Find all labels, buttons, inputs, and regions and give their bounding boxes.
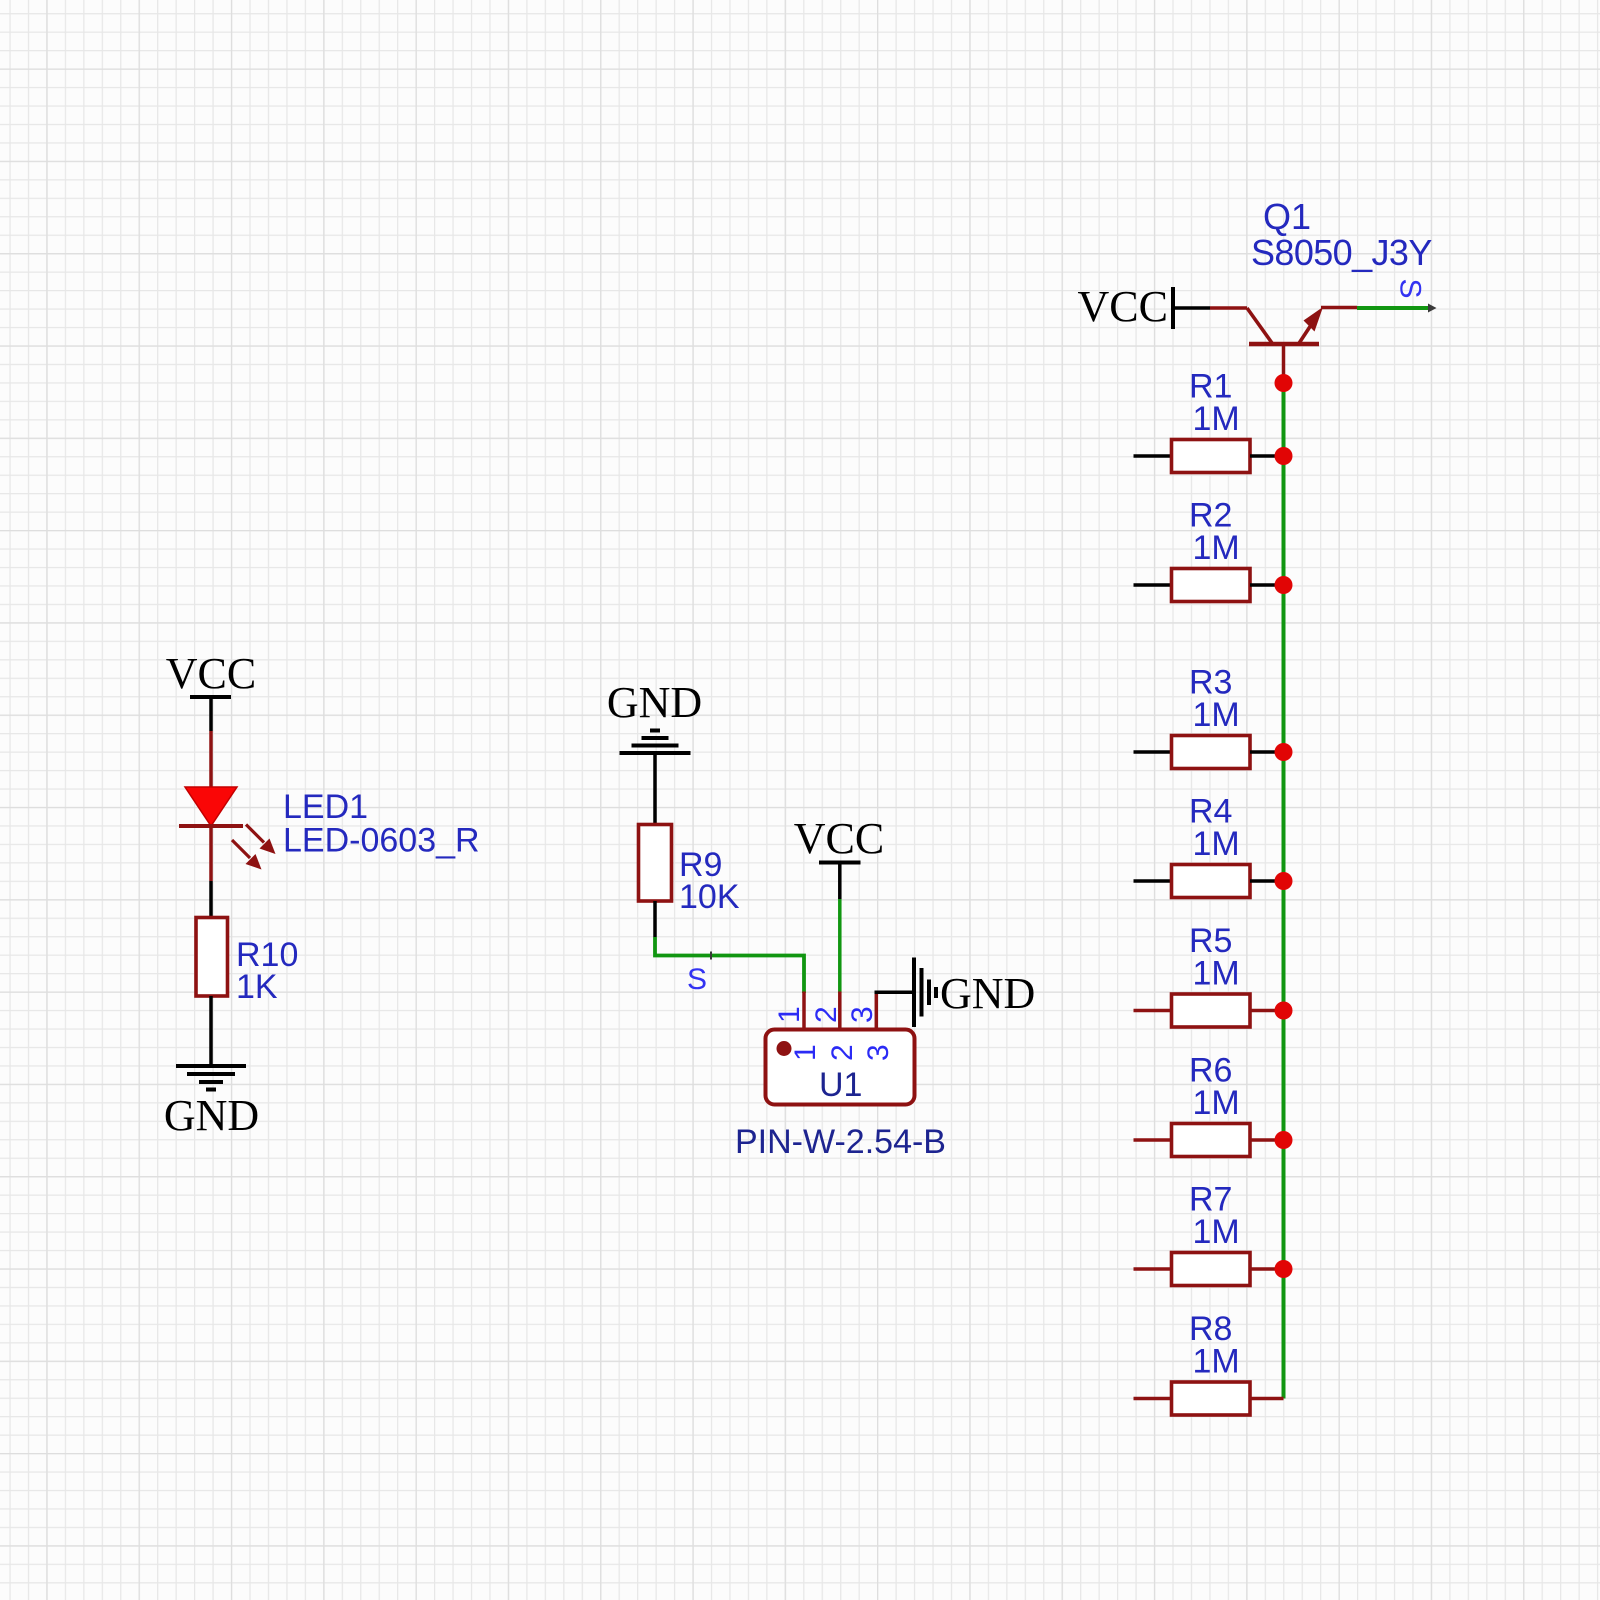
svg-text:1M: 1M [1193, 400, 1240, 438]
svg-text:2: 2 [810, 1006, 843, 1023]
VCC power bar (middle) [819, 861, 861, 865]
resistor R3 right lead [1250, 750, 1284, 754]
wire VCC down (black) [838, 863, 842, 900]
pin-1 marker dot of U1 [777, 1041, 792, 1056]
ground GND (right of U1, rotated) [914, 958, 936, 1028]
wire VCC to Q1 (black) [1173, 306, 1210, 310]
LED LED1 cathode pin [209, 826, 213, 881]
wire S (green, right) [1357, 306, 1431, 310]
VCC power bar (right) [1171, 287, 1175, 329]
svg-text:VCC: VCC [794, 814, 884, 863]
svg-text:1M: 1M [1193, 696, 1240, 734]
wire R9 down [653, 901, 657, 937]
svg-text:1: 1 [789, 1044, 822, 1061]
wire Q1 base down [1282, 344, 1286, 383]
svg-text:VCC: VCC [1078, 282, 1168, 331]
wire LED1 to R10 [209, 881, 213, 918]
svg-text:1M: 1M [1193, 1343, 1240, 1381]
svg-text:1M: 1M [1193, 825, 1240, 863]
svg-text:2: 2 [826, 1044, 859, 1061]
svg-text:1M: 1M [1193, 1084, 1240, 1122]
resistor R7 [1172, 1253, 1251, 1286]
resistor R1 left lead [1134, 454, 1172, 458]
svg-text:1M: 1M [1193, 529, 1240, 567]
ground GND (left) [176, 1066, 246, 1090]
resistor R6 left lead [1134, 1138, 1172, 1142]
resistor R3 [1172, 736, 1251, 769]
svg-text:GND: GND [164, 1091, 259, 1140]
svg-text:PIN-W-2.54-B: PIN-W-2.54-B [735, 1123, 946, 1161]
junction dot at R2 [1275, 576, 1293, 594]
svg-text:LED1: LED1 [283, 788, 368, 826]
resistor R6 [1172, 1124, 1251, 1157]
svg-text:GND: GND [607, 678, 702, 727]
resistor R9 [639, 825, 672, 902]
svg-text:1M: 1M [1193, 955, 1240, 993]
resistor R5 right lead [1250, 1009, 1284, 1013]
svg-text:1K: 1K [236, 968, 278, 1006]
svg-text:GND: GND [940, 969, 1035, 1018]
resistor R2 [1172, 569, 1251, 602]
LED LED1 body [185, 787, 237, 826]
svg-text:S: S [687, 963, 707, 996]
LED LED1 light arrows [232, 825, 276, 870]
junction dot at R4 [1275, 872, 1293, 890]
resistor R5 left lead [1134, 1009, 1172, 1013]
resistor R7 left lead [1134, 1267, 1172, 1271]
svg-text:LED-0603_R: LED-0603_R [283, 822, 480, 860]
resistor R4 right lead [1250, 879, 1284, 883]
LED LED1 anode pin [209, 731, 213, 788]
ground GND (middle, flipped) [620, 731, 691, 754]
wire R10 to GND [209, 996, 213, 1066]
pin 1 of U1 [802, 992, 806, 1030]
svg-text:U1: U1 [819, 1066, 862, 1104]
net label S anchor tick [710, 952, 712, 960]
junction dot at Q1 base [1275, 374, 1293, 392]
wire S (green, middle) [655, 937, 804, 993]
wire VCC to LED1 [209, 697, 213, 731]
resistor R6 right lead [1250, 1138, 1284, 1142]
transistor Q1 [1210, 307, 1357, 344]
resistor R10 [196, 918, 228, 997]
svg-text:10K: 10K [679, 878, 740, 916]
resistor R5 [1172, 994, 1251, 1027]
resistor R4 left lead [1134, 879, 1172, 883]
resistor R4 [1172, 865, 1251, 898]
junction dot at R3 [1275, 743, 1293, 761]
pin 2 of U1 [838, 992, 842, 1030]
resistor R1 [1172, 440, 1251, 473]
wire GND to R9 [653, 753, 657, 825]
junction dot at R1 [1275, 447, 1293, 465]
pin 3 of U1 [875, 992, 879, 1030]
resistor R2 right lead [1250, 583, 1284, 587]
connector U1 body [766, 1030, 915, 1105]
wire green bus (vertical) [1282, 383, 1286, 1399]
junction dot at R6 [1275, 1131, 1293, 1149]
resistor R2 left lead [1134, 583, 1172, 587]
wire S arrow end [1428, 304, 1437, 313]
VCC power bar (left) [190, 695, 231, 699]
wire VCC down (green) [838, 899, 842, 993]
resistor R7 right lead [1250, 1267, 1284, 1271]
svg-text:1: 1 [773, 1006, 806, 1023]
resistor R8 left lead [1134, 1397, 1172, 1401]
wire pin3 to GND [875, 991, 915, 995]
resistor R8 right lead [1250, 1397, 1284, 1401]
resistor R3 left lead [1134, 750, 1172, 754]
resistor R1 right lead [1250, 454, 1284, 458]
svg-text:1M: 1M [1193, 1213, 1240, 1251]
resistor R8 [1172, 1382, 1251, 1415]
junction dot at R5 [1275, 1002, 1293, 1020]
svg-text:3: 3 [846, 1006, 879, 1023]
svg-text:3: 3 [862, 1044, 895, 1061]
svg-text:VCC: VCC [166, 649, 256, 698]
svg-text:S: S [1394, 278, 1427, 298]
junction dot at R7 [1275, 1260, 1293, 1278]
svg-text:S8050_J3Y: S8050_J3Y [1251, 232, 1432, 273]
svg-text:Q1: Q1 [1263, 196, 1311, 237]
